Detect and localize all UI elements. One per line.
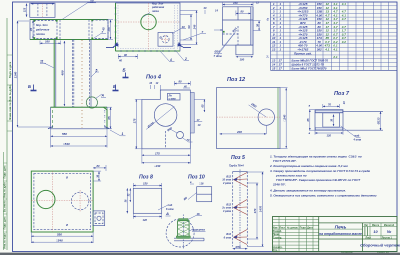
svg-text:Т.контр.: Т.контр. <box>273 236 283 239</box>
svg-text:Поз 7: Поз 7 <box>334 91 350 97</box>
svg-text:4 ряда: 4 ряда <box>222 210 232 213</box>
bottom view: outer square <box>31 171 93 232</box>
bottom view: dim 36 right top <box>93 171 101 181</box>
svg-text:1140: 1140 <box>14 71 18 78</box>
technical notes <box>269 155 377 198</box>
label 1 with leader <box>110 130 126 136</box>
Poz 4 hole note box <box>167 94 180 101</box>
Poz 5 tube outline <box>233 170 248 249</box>
svg-text:Лист: Лист <box>279 226 285 229</box>
label 5 with leader <box>91 69 99 78</box>
svg-text:Поз 5: Поз 5 <box>231 155 245 161</box>
Poz 5 bottom dim <box>233 245 248 249</box>
svg-text:5. Отверстия в низ сверлить со: 5. Отверстия в низ сверлить совместно с … <box>270 194 377 198</box>
svg-text:4 отв: 4 отв <box>353 138 362 142</box>
svg-text:Ø76: Ø76 <box>236 245 242 249</box>
svg-text:Труба 76×4: Труба 76×4 <box>229 164 244 168</box>
left margin column upper <box>7 18 13 250</box>
top view: leaders 4 and 2 <box>160 51 189 62</box>
title block document name <box>319 225 362 237</box>
top view: rivet tick marks on edges <box>115 8 176 52</box>
svg-text:0.2: 0.2 <box>342 40 347 44</box>
svg-text:Ø10: Ø10 <box>215 50 221 54</box>
svg-text:Вз. инв №: Вз. инв № <box>4 200 7 212</box>
bottom view: small hole marks top <box>66 177 68 228</box>
svg-text:4.1: 4.1 <box>324 47 330 51</box>
bottom page shadow edge <box>0 253 400 255</box>
svg-text:150: 150 <box>143 182 148 186</box>
Poz 5 left labels <box>221 176 231 240</box>
svg-text:1. Толщину м/консруируя на при: 1. Толщину м/консруируя на приемке стены… <box>270 155 362 159</box>
svg-text:Ø133: Ø133 <box>377 117 381 124</box>
main view: leader label 12 <box>62 0 96 20</box>
title block left grid <box>273 217 363 252</box>
svg-text:45: 45 <box>29 28 33 33</box>
svg-text:550: 550 <box>57 232 62 236</box>
svg-text:125: 125 <box>24 7 27 12</box>
Poz 12 circle with leader <box>249 102 275 125</box>
svg-text:17: 17 <box>279 66 283 70</box>
svg-text:2: 2 <box>184 57 187 61</box>
svg-text:4.1: 4.1 <box>341 2 347 6</box>
svg-text:240: 240 <box>193 24 197 30</box>
svg-text:ГОСТ 27772-88*.: ГОСТ 27772-88*. <box>273 159 297 163</box>
svg-text:65: 65 <box>201 104 205 107</box>
Poz 8 view <box>133 188 161 213</box>
svg-text:38: 38 <box>255 24 259 27</box>
Poz 5 hole pattern fans (red) <box>234 173 248 245</box>
svg-text:Инв. № дубл.: Инв. № дубл. <box>8 84 12 101</box>
top view: right dim chain 2 <box>180 11 198 45</box>
main view: column <box>54 40 91 129</box>
stepped part: top dim 150 <box>223 0 260 6</box>
svg-text:Ø: Ø <box>66 224 68 227</box>
main view: top plate band <box>30 20 108 40</box>
Poz 8 dims <box>125 182 175 222</box>
svg-text:под: под <box>168 203 173 207</box>
svg-text:А: А <box>165 211 169 216</box>
section mark Б (right) <box>113 84 119 91</box>
svg-text:10: 10 <box>182 25 186 29</box>
svg-text:40: 40 <box>203 6 207 10</box>
section mark Б (far right, mid) <box>123 68 129 78</box>
burner detail: plate <box>174 238 204 241</box>
base box right dim <box>107 107 112 129</box>
svg-text:Формат А1: Формат А1 <box>377 251 390 254</box>
top view: centerlines <box>116 3 181 51</box>
stepped part view (top right of views) <box>223 7 254 45</box>
svg-text:4: 4 <box>169 58 172 62</box>
stepped part: left dims <box>203 6 223 30</box>
Poz 4 bottom dims <box>142 149 190 168</box>
Poz 4 view outline <box>142 90 194 149</box>
svg-text:16: 16 <box>197 212 201 216</box>
svg-text:Масштаб: Масштаб <box>384 224 395 227</box>
burner detail: centerline <box>182 215 184 250</box>
svg-text:Поз 8: Поз 8 <box>139 175 153 181</box>
Poz 12 dim 200 <box>220 125 267 134</box>
svg-text:1470: 1470 <box>259 205 263 212</box>
top view: bottom small dims <box>118 53 138 63</box>
svg-text:ГОСТ 8050-85*. Сварочная прово: ГОСТ 8050-85*. Сварочная проволока СВ-08… <box>276 178 361 182</box>
svg-text:Поз 12: Поз 12 <box>227 77 246 83</box>
svg-text:Масса: Масса <box>372 225 380 227</box>
svg-text:Б: Б <box>123 68 126 73</box>
base box bottom dims 550 / 540 <box>51 129 107 148</box>
main view: dim 160 below band <box>40 40 61 45</box>
top view: label text at top <box>143 2 165 17</box>
burner detail: dashed circle <box>166 219 194 247</box>
Poz 10 view <box>183 181 212 202</box>
svg-text:Поз 10: Поз 10 <box>188 175 205 181</box>
top view: small square with circle <box>158 33 173 47</box>
Poz 12 right dim 240 <box>280 88 288 149</box>
Poz 4 small hole with leaders <box>166 126 192 142</box>
burner detail: leaders <box>188 212 206 232</box>
svg-text:№: № <box>387 230 392 234</box>
Poz 5 right dims 370 / 1470 <box>247 172 263 247</box>
svg-text:углекислого газа по: углекислого газа по <box>275 174 307 178</box>
Poz 12 view <box>217 88 280 149</box>
bottom view: dim 80 top right <box>93 164 106 171</box>
Poz 4 top dims <box>149 80 190 90</box>
Poz 4 left dim 175 <box>132 99 142 148</box>
svg-text:120: 120 <box>327 134 332 138</box>
bottom view: bottom dims <box>31 232 93 243</box>
bottom view: solid circle <box>37 190 55 208</box>
svg-text:Изм: Изм <box>273 226 278 229</box>
main view: hatch box label (left) <box>33 20 57 39</box>
svg-text:400: 400 <box>60 70 64 76</box>
top view: leader 10 to small square <box>172 25 186 34</box>
main view: band left dim 45 <box>29 21 33 39</box>
svg-text:А: А <box>101 94 105 98</box>
svg-text:Б: Б <box>28 84 31 89</box>
svg-text:90: 90 <box>187 25 191 29</box>
svg-text:рабочные: рабочные <box>35 28 50 32</box>
svg-text:Взам. инв. №: Взам. инв. № <box>8 102 12 119</box>
main view: hatch box (right) <box>91 19 108 39</box>
svg-text:40: 40 <box>118 59 122 63</box>
stepped part: hole leader <box>214 26 239 58</box>
svg-text:100: 100 <box>240 57 245 61</box>
svg-text:Кор. Элл: Кор. Элл <box>36 23 48 27</box>
title block header labels <box>273 226 314 252</box>
svg-text:Печь: Печь <box>335 225 347 231</box>
svg-text:Кор. Элл: Кор. Элл <box>152 2 164 6</box>
svg-text:□240: □240 <box>282 114 286 121</box>
main view: weld flag at band <box>94 30 106 38</box>
svg-text:Подп. и дата: Подп. и дата <box>8 61 12 78</box>
stepped part: inner dim 80 <box>236 10 251 16</box>
svg-text:□540: □540 <box>56 238 63 242</box>
bottom view: dashed circle <box>71 192 89 210</box>
svg-text:Подп. дата: Подп. дата <box>4 216 7 229</box>
top view: weld flag 7 right <box>183 30 206 40</box>
main view: flange left dims <box>24 4 27 17</box>
svg-text:Поз 4: Поз 4 <box>146 75 162 81</box>
svg-text:40: 40 <box>183 85 187 88</box>
title block right cells <box>363 223 398 240</box>
bottom view: attached small box right <box>93 211 105 226</box>
svg-text:12: 12 <box>90 0 94 3</box>
svg-text:плота: плота <box>36 33 45 36</box>
svg-text:175: 175 <box>132 118 136 123</box>
svg-text:рабочная: рабочная <box>151 5 165 9</box>
svg-text:□540: □540 <box>63 142 70 146</box>
svg-text:175: 175 <box>155 151 160 155</box>
svg-text:70: 70 <box>328 103 331 107</box>
top view: right dim 90 <box>180 15 193 41</box>
svg-text:□240: □240 <box>154 164 161 168</box>
Poz 4 right flange dims <box>194 99 205 127</box>
svg-text:2. Конструкторные наметы сварн: 2. Конструкторные наметы сварные швов -5… <box>269 164 349 168</box>
section mark Б (left) <box>28 84 37 91</box>
svg-text:Подп.: Подп. <box>300 226 307 229</box>
svg-text:Инв. № подл: Инв. № подл <box>4 233 7 249</box>
svg-text:Копировал: Копировал <box>341 252 354 254</box>
svg-text:Прочие изд.: Прочие изд. <box>294 51 312 55</box>
svg-text:550: 550 <box>62 132 67 136</box>
label 11 with leader <box>40 60 54 69</box>
svg-text:Подп. дата: Подп. дата <box>4 165 7 178</box>
svg-text:Лист: Лист <box>366 238 372 240</box>
Poz 7 dims <box>306 101 381 142</box>
top view: outer plate <box>116 3 181 51</box>
svg-text:лета: лета <box>151 10 159 13</box>
svg-text:4.7: 4.7 <box>341 17 347 21</box>
main view: top flange <box>30 3 55 17</box>
svg-text:Ø: Ø <box>66 177 68 180</box>
svg-text:362: 362 <box>317 47 322 51</box>
svg-text:150: 150 <box>233 1 238 5</box>
main view: base box <box>48 107 110 129</box>
svg-text:170: 170 <box>107 27 111 32</box>
svg-text:65: 65 <box>107 116 111 120</box>
svg-text:на отработанном масле: на отработанном масле <box>319 232 362 236</box>
top view: corner dimension arrows <box>106 42 191 48</box>
svg-text:160: 160 <box>45 40 50 44</box>
svg-text:под: под <box>355 134 360 138</box>
svg-text:Болт М6х2 ГОСТ 7805-70: Болт М6х2 ГОСТ 7805-70 <box>292 66 327 70</box>
svg-text:370: 370 <box>253 208 257 213</box>
svg-text:15: 15 <box>272 66 276 70</box>
svg-text:□16: □16 <box>199 182 204 186</box>
svg-text:3. Сварку производить полуавто: 3. Сварку производить полуавтоматом по Г… <box>270 169 370 173</box>
main view: band right dim 170 <box>107 20 113 40</box>
svg-text:80: 80 <box>97 164 100 168</box>
svg-text:7 отв: 7 отв <box>214 54 223 58</box>
stepped part: bottom extension <box>236 45 253 61</box>
main view: column height dim 400 <box>60 41 64 106</box>
svg-text:Утв.: Утв. <box>273 249 278 252</box>
left margin column lower <box>4 152 8 250</box>
svg-text:№ докум.: № докум. <box>287 226 299 229</box>
title block outer <box>273 217 398 252</box>
burner detail: nozzle body (green hatched) <box>176 219 190 239</box>
svg-text:4. Детали завариваются по конт: 4. Детали завариваются по контуру прилег… <box>269 189 346 193</box>
svg-text:6 отв: 6 отв <box>224 236 232 239</box>
bottom view: centerlines <box>31 171 93 232</box>
below frame captions <box>341 251 390 254</box>
svg-text:80: 80 <box>241 10 244 14</box>
svg-text:Инв. № дубл: Инв. № дубл <box>4 182 7 198</box>
svg-text:Форсунка: Форсунка <box>192 227 205 231</box>
detail circle A on column-base joint <box>86 94 106 109</box>
svg-text:11: 11 <box>40 60 44 64</box>
svg-text:90: 90 <box>124 53 127 57</box>
title block main dividers <box>319 217 397 252</box>
svg-text:13: 13 <box>272 47 276 51</box>
Poz 7 view <box>315 110 383 131</box>
Poz 4 circle with leader <box>146 104 177 130</box>
top view: big circle <box>141 14 156 29</box>
svg-text:2246-70*.: 2246-70*. <box>272 183 286 187</box>
main view: overall height dimension <box>14 21 51 127</box>
svg-text:с отв: с отв <box>169 97 177 100</box>
svg-text:4.1: 4.1 <box>332 47 338 51</box>
svg-text:65: 65 <box>306 118 310 121</box>
svg-text:2 ряда: 2 ряда <box>222 182 232 185</box>
svg-text:Сборочный чертеж: Сборочный чертеж <box>360 243 400 248</box>
svg-text:Листов 1: Листов 1 <box>382 238 393 240</box>
svg-text:80: 80 <box>179 80 183 84</box>
svg-text:200: 200 <box>236 130 242 134</box>
svg-text:Дата: Дата <box>307 226 313 229</box>
svg-text:2.1: 2.1 <box>332 55 338 59</box>
specification table <box>267 2 398 70</box>
svg-text:1: 1 <box>122 132 124 136</box>
detail A marker at burner <box>165 211 171 216</box>
stepped part: right dim 38 <box>253 21 261 31</box>
svg-text:120: 120 <box>143 218 148 222</box>
Poz 5 fan arrowheads <box>233 178 238 239</box>
